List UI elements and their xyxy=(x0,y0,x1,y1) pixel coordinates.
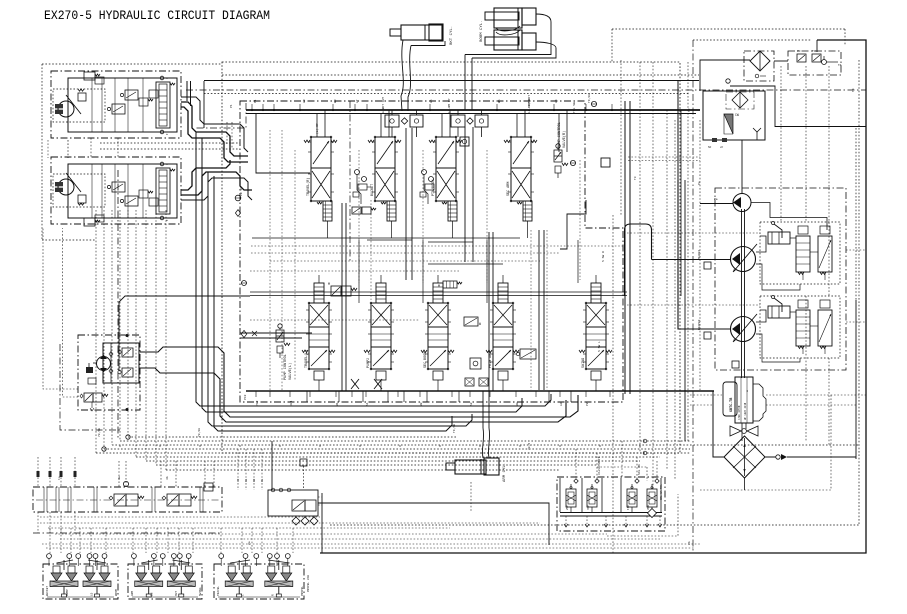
outer dotted boundary bottom xyxy=(330,524,859,526)
aux port square xyxy=(470,358,481,369)
shuttle internal dotted link xyxy=(597,466,647,468)
svg-text:M: M xyxy=(328,282,330,286)
crossover extra line E xyxy=(181,97,248,152)
pilot filter bypass check xyxy=(755,74,759,78)
port check valve pair LT.BM UP xyxy=(451,115,465,127)
secondary return vertical xyxy=(680,110,682,296)
pilot valve unit xyxy=(148,560,150,570)
travel small top comp xyxy=(95,77,104,84)
svg-text:OUT: OUT xyxy=(175,591,178,596)
arm cylinder head xyxy=(484,458,499,475)
travel L feed lines xyxy=(240,332,312,334)
svg-text:S SW L: S SW L xyxy=(598,341,601,352)
FR SW port circle right xyxy=(235,195,241,201)
svg-text:6BTC-TB: 6BTC-TB xyxy=(730,398,734,412)
svg-text:B2: B2 xyxy=(420,402,423,406)
P feed to travel spool xyxy=(256,113,310,173)
boom cylinder upper piston xyxy=(517,8,519,28)
work line pair S1 down xyxy=(341,203,343,391)
upper dash-dot boundary xyxy=(186,89,866,91)
pilot cluster port circles xyxy=(132,554,137,559)
pilot manifold box xyxy=(268,490,318,516)
pilot valve unit stem xyxy=(63,587,65,595)
manifold outlet to tank rail xyxy=(321,493,323,553)
travel riser A (down to web) xyxy=(196,132,551,406)
pilot filter inlet line xyxy=(700,60,750,91)
pilot pump suction xyxy=(741,140,743,194)
svg-text:1TR: 1TR xyxy=(627,505,630,510)
spool valve PUMP2 body lower (arrow) xyxy=(371,347,391,369)
cb port circle lower xyxy=(160,216,164,220)
load check cluster B xyxy=(422,170,427,175)
spool valve SEC BOOM port ticks xyxy=(425,309,428,311)
relief cartridge M1 xyxy=(443,281,457,288)
spool valve TRAVEL(R) body lower (closed X) xyxy=(311,168,331,201)
boom cylinder lower head xyxy=(522,33,536,50)
pcv feed lines xyxy=(558,114,560,153)
spool valve PTN/BOOM body lower (closed X) xyxy=(436,168,456,201)
svg-text:A2: A2 xyxy=(470,402,473,406)
bus port circle xyxy=(591,101,596,106)
svg-text:SF: SF xyxy=(708,146,712,149)
main pump 2 xyxy=(731,317,756,342)
shuttle bottom ports xyxy=(565,516,567,524)
band port circle xyxy=(123,481,128,486)
svg-text:dr: dr xyxy=(720,145,724,149)
band solenoid valve 1 xyxy=(114,494,126,506)
swing pilot boundary dash-dot xyxy=(60,344,120,430)
svg-text:SWING: SWING xyxy=(582,358,586,368)
svg-text:C2: C2 xyxy=(237,478,240,482)
swing pilot dotted line 1 xyxy=(43,228,78,389)
junction circle PCV R xyxy=(570,160,575,165)
outer dotted boundary right xyxy=(858,60,860,525)
pump control valve L spring-port xyxy=(277,346,283,353)
pump control valve R body xyxy=(554,150,562,162)
dotted verticals to clusters xyxy=(49,528,51,553)
pilot cluster rocker levers xyxy=(141,560,157,563)
boom cylinder lower body xyxy=(494,30,522,50)
spool valve SWING cap dots xyxy=(585,302,587,304)
spool valve PTN/BOOM cap dots xyxy=(435,136,437,138)
svg-text:R: R xyxy=(271,594,274,596)
pilot web vertical bundle left xyxy=(95,210,97,453)
pilot cluster rocker levers xyxy=(57,560,74,563)
solenoid block top right (dash-dot) xyxy=(788,51,841,75)
mid bus line 1 xyxy=(250,291,627,293)
svg-text:4a: 4a xyxy=(118,476,121,480)
boom cylinder upper head xyxy=(522,8,536,25)
check valve bowtie 2 xyxy=(374,379,382,389)
spool valve PTN/BOOM body upper (arrow) xyxy=(436,137,456,168)
svg-text:70,SH: 70,SH xyxy=(98,428,101,437)
spool valve SEC ARM solenoid cap xyxy=(523,201,532,221)
boom priority solenoid valve xyxy=(331,286,341,296)
pilot valve unit stem xyxy=(238,587,240,595)
spool valve BUCKET port ticks xyxy=(372,141,375,143)
pcv drain step line xyxy=(560,200,586,249)
swing motor housing xyxy=(103,343,139,383)
svg-text:TRAVEL(L): TRAVEL(L) xyxy=(304,350,309,368)
tank drain stub xyxy=(744,478,746,490)
swing main line B xyxy=(140,368,566,422)
spool valve PUMP2 side springs xyxy=(364,350,370,353)
block left edge diamond port xyxy=(241,330,247,337)
swing main line A xyxy=(140,347,578,417)
pilot filter outlet line xyxy=(774,60,788,62)
travel motor inner housing xyxy=(68,78,177,132)
spool valve PUMP2 solenoid cap xyxy=(376,283,386,303)
spool valve SEC BOOM body lower (arrow) xyxy=(428,347,448,369)
regulator feedback line 1 xyxy=(756,236,766,252)
spool valve BUCKET solenoid cap xyxy=(387,201,396,221)
travel riser C (down to web) xyxy=(208,172,472,426)
svg-text:HP 1885 421N: HP 1885 421N xyxy=(744,402,747,420)
spool valve TRAVEL(R) cap dots xyxy=(310,136,312,138)
main valve bottom bus xyxy=(246,390,714,392)
spool valve SWING body upper (closed X) xyxy=(586,303,606,327)
boom head link upper xyxy=(465,14,551,55)
bucket cylinder BKT CYL body xyxy=(401,25,442,40)
boom head link lower xyxy=(472,42,556,58)
return riser solid lower xyxy=(855,300,857,459)
svg-text:ta: ta xyxy=(58,476,61,480)
travel pilot choke block (dotted) xyxy=(53,174,105,207)
pilot valve unit xyxy=(63,560,65,570)
shuttle element a xyxy=(574,479,578,483)
manifold valve xyxy=(292,500,305,511)
svg-text:★: ★ xyxy=(166,76,168,80)
svg-text:B5: B5 xyxy=(498,99,501,103)
spool valve TRAVEL(R) solenoid cap xyxy=(323,201,332,221)
svg-text:SEC BOOM: SEC BOOM xyxy=(424,352,428,368)
pump group dash-dot frame xyxy=(715,188,846,370)
svg-text:IN: IN xyxy=(150,592,153,596)
arm feed risers to bus xyxy=(482,391,484,428)
engine block left (6BTC-TB) xyxy=(723,382,737,416)
pump regulator R1 spool B cap xyxy=(820,226,830,234)
spool valve TRAVEL(L) body lower (arrow) xyxy=(309,347,329,369)
travel motor ports (dark) xyxy=(55,182,63,192)
cooler outlet to border xyxy=(730,86,866,127)
svg-text:S SW R: S SW R xyxy=(602,251,605,262)
spool valve PUMP2 body mid xyxy=(371,327,391,347)
spool valve PUMP2 cap dots xyxy=(370,302,372,304)
relief cartridge W1 xyxy=(464,317,478,326)
boom-arm long vertical pair xyxy=(488,232,490,391)
spool valve SWING solenoid cap xyxy=(591,283,601,303)
svg-text:BOOM CYL.: BOOM CYL. xyxy=(480,20,484,42)
spool valve PTN/BOOM solenoid cap xyxy=(448,201,457,221)
spool valve TRAVEL(L) tail block xyxy=(314,371,324,380)
spool valve TRAVEL(L) port ticks xyxy=(306,309,309,311)
boom cylinder upper body xyxy=(494,8,522,28)
regulator cross links xyxy=(756,264,800,290)
crossover risers to through-line xyxy=(186,81,188,101)
svg-text:A4: A4 xyxy=(555,99,558,103)
block left edge port circle xyxy=(242,281,247,286)
pump discharge line 2 (P2) xyxy=(678,180,731,329)
pump regulator R1 spool B xyxy=(818,236,832,272)
upper dotted through-line xyxy=(222,74,699,76)
travel main line D xyxy=(181,172,252,195)
spool valve SEC ARM cap dots xyxy=(510,136,512,138)
pump regulator R1 links xyxy=(802,272,804,280)
svg-text:P01: P01 xyxy=(698,249,701,255)
travel check pair xyxy=(139,98,148,106)
svg-text:SEC ARM: SEC ARM xyxy=(507,182,511,196)
spool valve TRAVEL(L) solenoid cap xyxy=(314,283,324,303)
travel swash piston xyxy=(78,93,86,101)
pilot dotted verticals in block xyxy=(269,130,271,390)
spool valve PRIM ARM tail block xyxy=(498,371,508,380)
spool valve SEC BOOM cap dots xyxy=(427,302,429,304)
spool valve PTN/BOOM side springs xyxy=(429,140,435,143)
svg-text:PRIM ARM: PRIM ARM xyxy=(489,352,493,368)
svg-text:P1: P1 xyxy=(230,104,233,108)
pilot filter frame (dash-dot) xyxy=(744,51,774,81)
svg-text:P02: P02 xyxy=(698,319,701,325)
svg-text:4SP: 4SP xyxy=(587,505,590,510)
bucket cylinder head line xyxy=(411,41,445,46)
spool valve TRAVEL(L) cap dots xyxy=(308,302,310,304)
svg-text:PUMP2: PUMP2 xyxy=(367,358,371,368)
mid link segments xyxy=(367,239,412,241)
pump regulator R2 spool A xyxy=(796,310,810,346)
dotted verticals to shuttle block xyxy=(575,449,577,479)
solenoid band internal line xyxy=(36,499,219,501)
arm cylinder ARM CYL body xyxy=(455,460,486,474)
pilot cluster port circles xyxy=(47,554,52,559)
pilot cluster rocker levers xyxy=(230,560,250,563)
svg-text:A6: A6 xyxy=(430,99,433,103)
spool valve TRAVEL(R) body upper (arrow) xyxy=(311,137,331,168)
pilot valve cluster frame (dash-dot) xyxy=(214,564,304,599)
cb port circle lower xyxy=(160,130,164,134)
svg-text:2SP: 2SP xyxy=(566,505,569,510)
shuttle block bottom rail double xyxy=(560,512,662,514)
shuttle element d xyxy=(655,479,659,483)
band risers xyxy=(37,457,39,487)
top bus port ticks xyxy=(251,104,253,110)
svg-text:A.BKT OUT: A.BKT OUT xyxy=(382,97,385,113)
below-bus port stubs xyxy=(306,391,308,402)
svg-text:TRAVEL(R): TRAVEL(R) xyxy=(306,178,311,196)
spool valve PRIM ARM side springs xyxy=(486,350,492,353)
shuttle element b xyxy=(595,479,599,483)
pilot valve unit stem xyxy=(180,587,182,595)
spool valve SWING tail block xyxy=(591,371,601,380)
spool valve TRAVEL(L) body mid xyxy=(309,327,329,347)
solenoid valve TC xyxy=(812,54,821,62)
svg-text:T4: T4 xyxy=(852,88,855,92)
svg-text:ARM CYL.: ARM CYL. xyxy=(503,463,507,482)
swing check column xyxy=(110,343,112,383)
pilot cluster port circles xyxy=(219,554,224,559)
svg-text:70,9: 70,9 xyxy=(528,443,531,450)
pilot valve unit xyxy=(238,560,240,570)
spool valve SWING body mid xyxy=(586,327,606,347)
pilot valve cluster frame (dash-dot) xyxy=(43,564,118,599)
crossover dash-dot corner xyxy=(196,103,246,128)
arm cyl drain dotted xyxy=(470,482,472,512)
right edge bus pair xyxy=(624,101,626,394)
solenoid valve PC xyxy=(797,54,806,62)
svg-text:M: M xyxy=(438,284,440,288)
spool valve PTN/BOOM port ticks xyxy=(433,141,436,143)
svg-text:A7: A7 xyxy=(356,99,359,103)
travel brake valve top xyxy=(84,218,95,226)
pump regulator R1 spool A cap xyxy=(798,226,808,234)
travel riser B (down to web) xyxy=(202,138,522,412)
svg-text:T2: T2 xyxy=(688,108,691,112)
travel check pair xyxy=(139,190,148,198)
svg-text:W: W xyxy=(479,322,481,326)
aux small box A xyxy=(465,378,474,386)
right boundary dash-dot vertical xyxy=(692,40,694,553)
travel internal wires xyxy=(91,164,93,218)
mid bus line 2 xyxy=(250,295,627,297)
pilot valve unit xyxy=(96,560,98,570)
boom cylinder upper rod xyxy=(485,12,519,20)
manifold inlet square xyxy=(300,459,307,466)
travel main line A xyxy=(181,102,248,156)
bucket cylinder piston xyxy=(424,25,426,40)
pilot valve unit xyxy=(180,560,182,570)
swing frame port dots xyxy=(126,334,129,337)
svg-text:TD,SH: TD,SH xyxy=(528,99,531,108)
svg-text:A3: A3 xyxy=(560,402,563,406)
svg-text:L: L xyxy=(242,594,245,596)
work line pair arm down xyxy=(538,230,540,390)
oil cooler box xyxy=(703,91,765,140)
travel pilot dotted vertical short xyxy=(47,140,49,158)
cooler filter diamond xyxy=(732,92,748,108)
svg-text:D1: D1 xyxy=(245,478,248,482)
travel pilot choke block (dotted) xyxy=(53,89,105,122)
aux small box B xyxy=(479,378,488,386)
power unit dotted frame right xyxy=(830,395,832,490)
port circle on through-line xyxy=(726,79,730,83)
bottom bus port ticks xyxy=(255,391,257,397)
pump regulator R1 lever xyxy=(774,224,782,238)
spool valve PRIM ARM solenoid cap xyxy=(498,283,508,303)
pump regulator R1 servo piston xyxy=(768,232,790,244)
svg-text:SWING: SWING xyxy=(199,587,202,596)
boom cylinder lower rod xyxy=(485,37,519,45)
band solenoid valve 2 xyxy=(167,494,179,506)
svg-text:VALVE(L): VALVE(L) xyxy=(288,363,293,380)
svg-text:3SW: 3SW xyxy=(647,505,650,510)
pump control valve R spring-port xyxy=(555,166,561,173)
svg-text:RL: RL xyxy=(261,478,264,482)
spool valve BUCKET feed from bus xyxy=(380,114,382,138)
svg-text:TRAVEL: TRAVEL xyxy=(217,586,220,596)
junction circle 1 xyxy=(102,447,106,451)
travel brake valve top xyxy=(84,72,95,80)
svg-text:★: ★ xyxy=(166,132,168,136)
pump regulator R1 spool A xyxy=(796,236,810,272)
tank return line to loop xyxy=(765,456,776,458)
travel motor ports (dark) xyxy=(55,104,63,114)
svg-text:1700 4255N: 1700 4255N xyxy=(738,405,741,420)
pilot web horizontal bundle xyxy=(128,436,457,438)
bucket cylinder feed lines xyxy=(401,40,403,111)
cluster web horizontals xyxy=(40,516,320,518)
spool valve TRAVEL(L) side springs xyxy=(302,350,308,353)
main pump 1 xyxy=(731,247,756,272)
svg-text:BUCKET: BUCKET xyxy=(371,184,375,196)
svg-text:TC: TC xyxy=(812,50,816,53)
shuttle below dotted link xyxy=(607,494,678,536)
pump discharge line 1 (P1 loop) xyxy=(625,224,732,296)
pump regulator R2 links xyxy=(802,346,804,354)
pilot web vertical bundle right xyxy=(639,62,641,453)
relief cartridge HI xyxy=(520,349,536,359)
spool valve SEC BOOM body upper (closed X) xyxy=(428,303,448,327)
main control valve boundary (dash-dot) xyxy=(240,101,623,402)
svg-text:PC: PC xyxy=(797,50,801,53)
swing motor xyxy=(97,357,111,371)
work line pair boom down xyxy=(464,127,466,262)
travel motor inner housing xyxy=(68,164,177,218)
svg-text:TRL SW: TRL SW xyxy=(573,102,576,113)
svg-text:SOL BK: SOL BK xyxy=(638,464,641,475)
svg-text:LT.BM UP: LT.BM UP xyxy=(448,98,451,113)
cb port circle upper xyxy=(160,76,164,80)
svg-text:4b: 4b xyxy=(165,476,169,480)
bucket cylinder rod xyxy=(390,29,401,36)
svg-text:PROPEL: PROPEL xyxy=(301,586,304,596)
shuttle element c xyxy=(635,479,639,483)
spool valve BUCKET body lower (closed X) xyxy=(375,168,395,201)
load check cluster A xyxy=(355,170,360,175)
travel main line C xyxy=(181,160,230,190)
shuttle diamond xyxy=(648,509,657,518)
engine block center xyxy=(735,377,753,423)
pilot shuttle block frame (dash-dot) xyxy=(557,477,665,531)
pump regulator R1 frame (dotted) xyxy=(760,222,840,284)
spool valve PUMP2 port ticks xyxy=(368,309,371,311)
spool valve BUCKET cap dots xyxy=(374,136,376,138)
cooler drain Y xyxy=(753,128,761,132)
swing mini relief xyxy=(88,378,96,384)
cooler bottom ports xyxy=(712,138,717,142)
spool valve PTN/BOOM feed from bus xyxy=(441,114,443,138)
spool valve BUCKET side springs xyxy=(368,140,374,143)
travel relief small B xyxy=(112,182,125,192)
engine fan xyxy=(730,426,758,436)
spool valve PRIM ARM body upper (closed X) xyxy=(493,303,513,327)
svg-text:B3: B3 xyxy=(516,402,519,406)
pilot line to regulators xyxy=(751,203,827,231)
svg-text:PC2: PC2 xyxy=(244,394,247,400)
suction strainer diamond xyxy=(724,436,765,478)
spool valve PRIM ARM body lower (arrow) xyxy=(493,347,513,369)
travel section divider dash-dot xyxy=(349,101,351,262)
travel relief small A xyxy=(125,90,138,100)
spool valve SEC BOOM body mid xyxy=(428,327,448,347)
web junction circles xyxy=(643,439,647,443)
pump regulator R2 spool B cap xyxy=(820,300,830,308)
swing device frame (dash-dot) xyxy=(78,335,140,410)
main valve top bus P2 xyxy=(246,113,696,115)
svg-text:BKT CYL.: BKT CYL. xyxy=(450,26,454,45)
svg-text:D2: D2 xyxy=(253,478,256,482)
manifold check diamonds xyxy=(292,517,300,525)
port check valve pair A.BKT OUT xyxy=(385,115,399,127)
crossover extra line F xyxy=(181,178,252,200)
